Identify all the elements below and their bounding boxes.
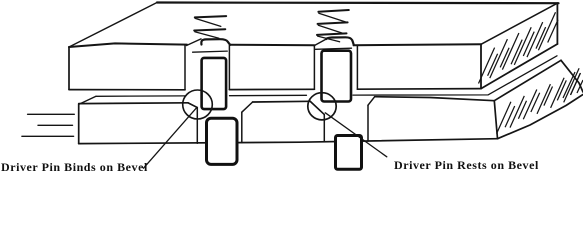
upper plate front top edge (left of slot 1) bbox=[69, 43, 187, 47]
upper plate front-right vertical edge bbox=[480, 44, 482, 88]
key pin 2 bbox=[336, 136, 362, 170]
spring 1 (over left driver pin) bbox=[195, 16, 226, 17]
detail circle 2 white fill bbox=[308, 93, 336, 120]
bevel chamfer left of hole 2 (over circle) bbox=[310, 101, 324, 114]
upper plate back ridge edge bbox=[157, 1, 559, 4]
bevel chamfer left of hole 1 (over circle) bbox=[188, 103, 197, 108]
bevel chamfer left of hole 1 bbox=[188, 103, 197, 108]
label: Driver Pin Rests on Bevel bbox=[394, 158, 539, 173]
detail circle 1 outline bbox=[183, 90, 213, 119]
slot 1 top-face opening back collar bbox=[201, 39, 230, 45]
upper plate end-face top edge bbox=[481, 3, 557, 44]
lower plate back ridge segment A bbox=[96, 95, 185, 97]
slot 1 left wall bbox=[184, 45, 186, 90]
lower plate end-face right edge bbox=[561, 60, 583, 92]
lower plate front top edge segment A bbox=[79, 102, 188, 105]
slot 1 top-face opening left edge bbox=[187, 39, 202, 46]
lower plate front top edge segment B bbox=[253, 100, 311, 103]
lower plate top-left 3d slant edge bbox=[79, 96, 96, 104]
driver pin 1 (binding) bbox=[202, 58, 227, 109]
plug hole 2 right wall bbox=[367, 105, 369, 141]
upper plate front bottom edge (left of slot 1) bbox=[69, 89, 185, 91]
lower plate front left edge bbox=[78, 104, 80, 143]
lower plate front top edge segment C bbox=[375, 97, 495, 101]
upper plate front left edge bbox=[68, 47, 70, 89]
extra hatch strokes in clipped right corner of lower end face bbox=[563, 72, 575, 98]
bevel chamfer right of hole 2 bbox=[368, 97, 375, 106]
upper plate hatched end face strokes bbox=[479, 48, 495, 84]
upper plate front bottom edge (between slots) bbox=[229, 88, 314, 90]
driver pin 2 (resting) bbox=[322, 51, 352, 102]
slot 1 right wall bbox=[228, 45, 230, 90]
detail circle 1 white fill bbox=[183, 90, 213, 119]
lower plate end-face bottom edge bbox=[498, 95, 583, 139]
spring 2 (over right driver pin) bbox=[318, 10, 348, 12]
plug hole 1 left wall bbox=[196, 108, 198, 144]
lower plate back ridge segment B bbox=[230, 94, 307, 96]
lower plate end-face top edge bbox=[494, 60, 561, 100]
lower plate front right edge bbox=[494, 101, 497, 139]
upper plate front bottom edge (right of slot 2) bbox=[357, 88, 481, 91]
lower plate back ridge segment C rising to end face bbox=[353, 56, 557, 95]
bevel chamfer left of hole 2 bbox=[310, 101, 324, 114]
lower plate front bottom edge bbox=[79, 139, 498, 144]
slot 2 top-face opening left edge bbox=[314, 39, 326, 46]
plug hole 2 left wall bbox=[323, 115, 325, 142]
slot 2 top-face opening back collar bbox=[326, 37, 354, 45]
lower plate hatched end face strokes bbox=[497, 102, 511, 134]
upper plate front top edge (between slots) bbox=[231, 44, 315, 47]
motion speed lines left of plug bbox=[28, 113, 75, 115]
upper plate back-right vertical edge bbox=[556, 3, 558, 44]
leader line to bevel 2 bbox=[325, 113, 387, 157]
upper plate front top edge (right of slot 2) bbox=[354, 43, 481, 46]
plug hole 1 right wall bbox=[241, 112, 243, 142]
bevel chamfer right of hole 1 bbox=[242, 102, 253, 112]
slot 2 left wall bbox=[313, 45, 315, 89]
upper plate top-face left slant edge bbox=[69, 3, 157, 48]
label: Driver Pin Binds on Bevel bbox=[1, 160, 148, 175]
leader line to bevel 1 bbox=[144, 108, 197, 168]
upper plate end-face bottom edge bbox=[481, 44, 557, 89]
detail circle 2 outline bbox=[308, 93, 336, 120]
key pin 1 bbox=[207, 118, 238, 164]
slot 2 right wall bbox=[356, 45, 358, 89]
